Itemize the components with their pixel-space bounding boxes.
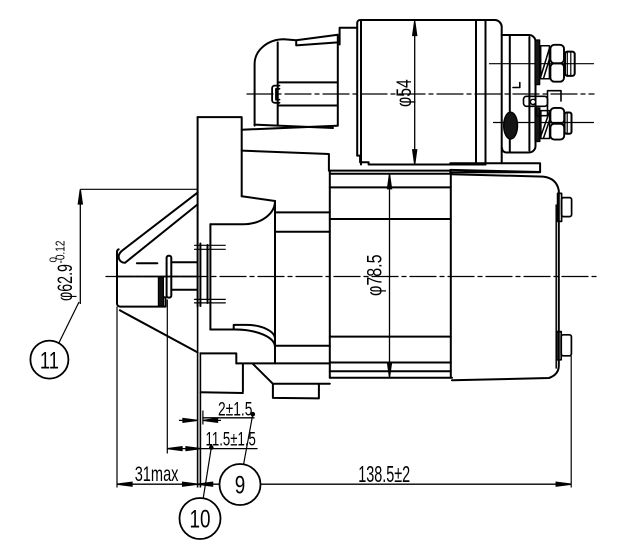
solenoid cap inner lines (510, 35, 530, 153)
front bracket horizontals lower (236, 346, 329, 364)
balloon 11 (30, 341, 68, 379)
upper terminal nuts (stacked pair) (550, 45, 564, 82)
balloon 10 (180, 498, 221, 539)
extension line rear face (570, 356, 572, 488)
solenoid main body (357, 20, 502, 163)
upper terminal stud end (565, 52, 575, 76)
balloon 11 leader (59, 302, 79, 344)
armature shaft (171, 262, 197, 290)
balloon 10 leader (203, 448, 211, 499)
svg-text:2±1.5: 2±1.5 (218, 398, 252, 420)
solenoid body bottom step (357, 156, 485, 165)
extension line small 2mm (202, 411, 204, 425)
yoke top lines (329, 171, 452, 174)
dimension phi54 (413, 21, 417, 164)
front bracket horizontals upper (275, 212, 330, 231)
upper through bolt (558, 193, 572, 221)
lower terminal stud end (565, 113, 572, 134)
yoke left edge (329, 171, 331, 378)
balloon 9 (220, 464, 261, 505)
svg-text:φ62.9: φ62.9 (52, 264, 77, 301)
svg-text:11: 11 (40, 347, 59, 374)
extension line shaft end (166, 300, 168, 454)
front bracket cup lower (double wall) (210, 325, 275, 347)
extension line flange face (198, 307, 201, 488)
svg-text:31max: 31max (135, 461, 179, 486)
pinion stop collar (158, 277, 163, 306)
shaft end collar (167, 256, 172, 298)
rear cap seam (555, 205, 557, 368)
lower lug foot (253, 364, 330, 399)
top flange band (450, 163, 540, 172)
lower boss (201, 353, 243, 393)
svg-text:φ54: φ54 (392, 79, 416, 107)
dimension phi78.5 (388, 174, 392, 377)
spigot flange left inner (199, 244, 201, 307)
svg-text:9: 9 (235, 471, 246, 499)
svg-text:-0.12: -0.12 (53, 241, 68, 264)
upper terminal threaded shank (535, 40, 549, 85)
yoke inner horizontals (330, 187, 451, 362)
dimension base line (117, 482, 571, 486)
spigot flange left face (197, 117, 199, 306)
terminal stud axis upper (490, 63, 594, 65)
lower through bolt (557, 332, 572, 360)
front bracket cup upper (210, 196, 275, 224)
solenoid plunger housing (278, 35, 338, 126)
svg-text:φ78.5: φ78.5 (362, 255, 386, 296)
terminal stud axis lower (494, 122, 594, 124)
lower terminal nuts (stacked pair) (550, 108, 564, 140)
front bracket upper lug (242, 151, 329, 171)
solenoid front collar (340, 28, 358, 45)
balloon 9 leader (244, 414, 253, 464)
extension line pinion face (116, 307, 118, 488)
solenoid body inner left line (360, 20, 362, 165)
support rib diagonal (120, 310, 198, 352)
battery cable boss (504, 112, 518, 139)
solenoid bracket bottom wedge (242, 125, 337, 130)
flange tick lines (195, 245, 226, 303)
solenoid cap (502, 35, 536, 153)
solenoid cap notch (513, 83, 520, 88)
centerline solenoid axis (247, 93, 594, 95)
rear cap outline (452, 174, 559, 380)
svg-text:138.5±2: 138.5±2 (358, 463, 410, 488)
dimension 11.5+-1.5 (167, 445, 257, 450)
svg-text:10: 10 (190, 505, 211, 533)
spigot flange right faces (208, 224, 211, 329)
solenoid bracket (255, 39, 284, 125)
dimension phi62.9 line (78, 190, 82, 305)
lower terminal threaded shank (535, 108, 550, 142)
plunger clevis hook (272, 86, 279, 103)
label phi62.9 with tolerance (49, 241, 77, 301)
dimension phi62.9 extension line (80, 188, 197, 190)
front bracket face vertical (274, 201, 276, 363)
front bracket pivot block (198, 117, 242, 196)
shaft axis solid segment (117, 276, 198, 278)
spade terminal bracket (524, 91, 562, 116)
dimension 2+-1.5 (179, 412, 255, 422)
pinion short mark (137, 262, 157, 264)
drive lever arm band (119, 193, 198, 263)
yoke bottom lines (330, 371, 452, 378)
solenoid rear ring lines (476, 20, 486, 165)
pinion outline (117, 249, 166, 306)
centerline motor axis (106, 276, 598, 278)
yoke right edge (450, 174, 452, 378)
